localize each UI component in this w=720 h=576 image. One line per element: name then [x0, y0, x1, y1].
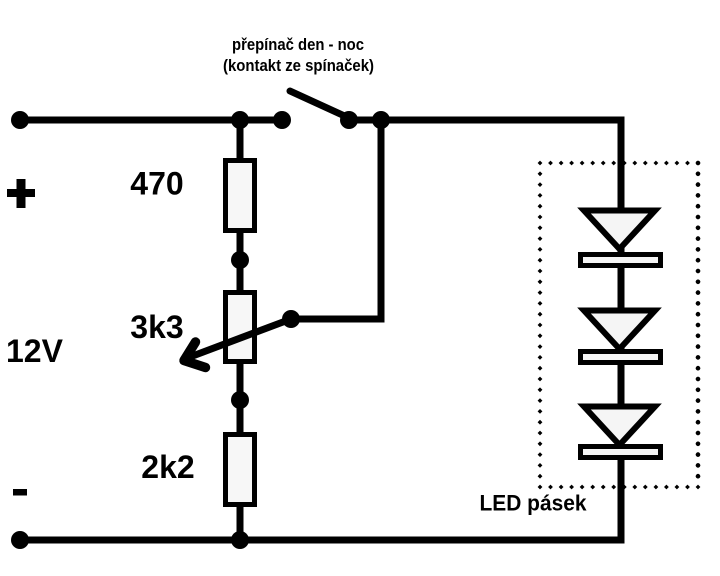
resistor 470 — [226, 161, 255, 231]
node: bottom junction of resistor chain — [231, 531, 249, 549]
svg-text:470: 470 — [130, 166, 183, 202]
label: minus terminal symbol — [13, 489, 27, 496]
svg-text:2k2: 2k2 — [141, 449, 194, 485]
wire wiper to top rail — [290, 117, 381, 319]
LED D3 triangle — [584, 407, 655, 446]
node: top junction to resistor chain — [231, 111, 249, 129]
node: junction between 470 and 3k3 — [231, 251, 249, 269]
LED strip dotted box border — [538, 161, 701, 490]
svg-text:LED pásek: LED pásek — [480, 491, 588, 516]
potentiometer 3k3 wiper arrowhead — [184, 342, 206, 368]
LED D2 cathode bar — [581, 352, 661, 363]
LED D3 cathode bar — [581, 447, 661, 458]
node: switch right contact — [340, 111, 358, 129]
LED D1 cathode bar — [581, 255, 661, 266]
LED strip dotted box right edge — [696, 163, 701, 487]
node: junction between 3k3 and 2k2 — [231, 391, 249, 409]
wire resistor chain vertical — [237, 120, 244, 540]
node: switch left contact — [273, 111, 291, 129]
svg-text:přepínač den - noc: přepínač den - noc — [232, 35, 364, 54]
wire bottom rail with corner up to LED strip — [20, 456, 621, 540]
LED D2 triangle — [584, 311, 655, 350]
svg-text:(kontakt ze spínaček): (kontakt ze spínaček) — [223, 56, 374, 75]
switch SW1 lever — [290, 91, 349, 118]
node: junction of wiper riser with top rail — [372, 111, 390, 129]
potentiometer 3k3 wiper shaft — [186, 319, 291, 359]
potentiometer 3k3 body — [226, 293, 255, 362]
svg-text:3k3: 3k3 — [130, 309, 183, 345]
node: potentiometer wiper terminal — [282, 310, 300, 328]
wire top rail left segment — [20, 117, 284, 124]
LED D1 triangle — [584, 211, 655, 250]
label: plus terminal symbol — [7, 179, 35, 208]
node: left + terminal — [11, 111, 29, 129]
wire top rail right segment with corner down to LED strip — [345, 120, 621, 215]
resistor 2k2 — [226, 435, 255, 505]
node: left - terminal — [11, 531, 29, 549]
wire LED strip vertical — [618, 120, 625, 540]
svg-text:12V: 12V — [6, 333, 64, 369]
